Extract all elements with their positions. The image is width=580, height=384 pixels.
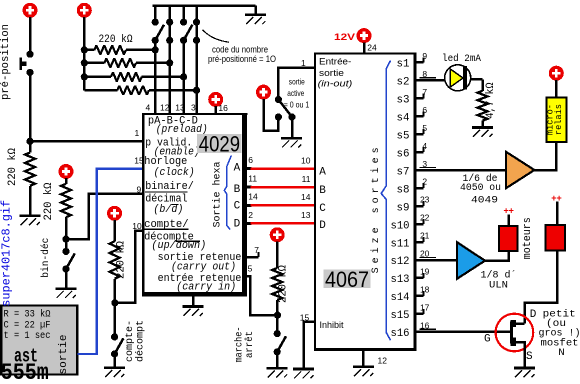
- svg-text:C: C: [319, 203, 326, 215]
- svg-text:1: 1: [135, 128, 140, 138]
- svg-text:2: 2: [422, 177, 427, 187]
- svg-text:2: 2: [248, 210, 253, 220]
- ground LED resistor: [472, 126, 493, 129]
- svg-text:super4017c8.gif: super4017c8.gif: [0, 200, 13, 307]
- wire ULN out to moteur: [485, 251, 509, 261]
- svg-text:16: 16: [218, 103, 228, 113]
- supply rail for resistor bank: [83, 17, 86, 90]
- wire buffer out to relais: [534, 142, 556, 170]
- 4067 pin 12 stub: [362, 350, 365, 366]
- switch marche-arret: [276, 315, 279, 334]
- svg-text:N: N: [558, 347, 565, 359]
- ground top right: [254, 6, 257, 15]
- wire pin9 to bin-dec node: [66, 194, 142, 240]
- svg-text:(b/d): (b/d): [153, 204, 183, 216]
- pointer line to code switches: [203, 30, 230, 43]
- ground under R1: [20, 214, 41, 217]
- 4029 ground pin 8: [192, 296, 195, 306]
- svg-text:s14: s14: [391, 292, 410, 304]
- svg-text:23: 23: [420, 195, 430, 205]
- svg-text:(in-out): (in-out): [318, 79, 353, 89]
- node junction pin1: [26, 138, 33, 145]
- svg-text:pré-positionné = 1O: pré-positionné = 1O: [208, 54, 276, 64]
- svg-text:C: C: [234, 201, 241, 213]
- resistor bank Rd: [84, 89, 117, 92]
- svg-text:21: 21: [420, 231, 430, 241]
- svg-text:(carry in): (carry in): [176, 281, 236, 293]
- resistor 220k marche: [276, 242, 279, 269]
- node rail-Rc: [81, 73, 88, 80]
- svg-text:pré-position: pré-position: [0, 24, 12, 100]
- svg-text:(clock): (clock): [154, 167, 195, 179]
- svg-text:9: 9: [422, 51, 427, 61]
- resistor R1 220k (pre-position pulldown): [29, 141, 32, 152]
- node marche: [274, 312, 281, 319]
- svg-text:4: 4: [146, 102, 151, 112]
- svg-text:17: 17: [420, 303, 430, 313]
- label 4,7 kOhm: [485, 82, 497, 118]
- svg-text:4067: 4067: [325, 267, 369, 292]
- label 220 kOhm R1: [7, 148, 19, 186]
- svg-text:D: D: [319, 220, 326, 232]
- svg-text:marche-: marche-: [233, 327, 245, 363]
- svg-text:décompt: décompt: [134, 320, 146, 362]
- code switch Sa line to 4029 pin 4: [154, 6, 157, 23]
- svg-text:14: 14: [248, 192, 258, 202]
- svg-text:220 kΩ: 220 kΩ: [7, 148, 19, 186]
- label compte-decompt: [124, 320, 136, 362]
- LED D1 led 2mA: [445, 65, 471, 91]
- resistor 220k bin-dec: [65, 178, 68, 184]
- label bin-dec: [40, 238, 52, 278]
- svg-text:D: D: [530, 309, 537, 321]
- code switch Sb line to 4029 pin 12: [168, 6, 171, 23]
- ground bin-dec: [65, 269, 68, 288]
- wire M1 to ++: [507, 215, 510, 227]
- node compte: [111, 299, 118, 306]
- label marche-arret: [233, 327, 245, 363]
- node rail-Ra: [81, 46, 88, 53]
- svg-text:19: 19: [420, 267, 430, 277]
- label super4017c8.gif: [0, 200, 13, 307]
- svg-text:(carry out): (carry out): [171, 261, 236, 273]
- IC U1 4029 body: [142, 113, 247, 297]
- wire M2 to mosfet drain: [525, 250, 558, 323]
- svg-text:led 2mA: led 2mA: [442, 53, 482, 65]
- mosfet gate bar: [510, 322, 513, 344]
- switch sortie active: [275, 96, 282, 103]
- push-button pre-position: [26, 51, 33, 58]
- svg-text:12V: 12V: [334, 32, 356, 43]
- svg-text:D: D: [234, 218, 241, 230]
- svg-text:12: 12: [160, 102, 170, 112]
- svg-text:s4: s4: [397, 112, 410, 124]
- node rail-Rb: [81, 59, 88, 66]
- svg-text:14: 14: [301, 192, 311, 202]
- wire 555 sortie to 4029 horloge (blue): [78, 169, 143, 354]
- svg-text:A: A: [234, 163, 241, 175]
- wire LED to resistor: [471, 78, 483, 81]
- svg-text:3: 3: [422, 159, 427, 169]
- 4067 label Seize sorties: [370, 147, 382, 273]
- svg-text:220 kΩ: 220 kΩ: [99, 34, 133, 46]
- 4029 blue brace outputs: [224, 156, 231, 230]
- svg-text:Entrée-: Entrée-: [319, 56, 351, 66]
- power +V supply symbol P7 (compte-decompte): [107, 206, 122, 221]
- resistor bank Rb: [84, 62, 104, 65]
- svg-text:s8: s8: [397, 184, 410, 196]
- wire 4029 pin10 to compte node: [115, 231, 142, 303]
- wire P5 to selector left contact: [264, 99, 279, 131]
- svg-text:18: 18: [420, 285, 430, 295]
- motor load M1 (red box): [499, 226, 518, 251]
- mosfet channel pads: [510, 320, 515, 327]
- svg-text:active: active: [287, 88, 304, 98]
- power +V supply symbol P5 (sortie active): [256, 85, 271, 100]
- svg-text:arrêt: arrêt: [244, 331, 256, 358]
- buffer U3 1/6 de 4050 (triangle): [506, 152, 534, 188]
- relay K1 micro-relais (yellow box): [547, 97, 567, 141]
- svg-text:6: 6: [422, 105, 427, 115]
- svg-text:Inhibit: Inhibit: [320, 320, 344, 330]
- svg-text:code du nombre: code du nombre: [212, 45, 268, 55]
- mosfet drain lead: [514, 322, 525, 325]
- svg-text:24: 24: [367, 42, 377, 52]
- svg-text:3: 3: [191, 102, 196, 112]
- power +V supply symbol P2 (resistor bank): [77, 3, 92, 18]
- svg-text:sortie: sortie: [289, 77, 305, 87]
- svg-text:s12: s12: [391, 256, 410, 268]
- resistor bank Ra: [84, 49, 94, 52]
- svg-text:sortie: sortie: [58, 335, 70, 375]
- svg-text:20: 20: [420, 249, 430, 259]
- svg-text:A: A: [319, 167, 326, 179]
- svg-text:s7: s7: [397, 166, 410, 178]
- svg-text:s10: s10: [391, 220, 410, 232]
- resistor bank Rc: [84, 76, 111, 79]
- svg-text:++: ++: [503, 206, 514, 217]
- svg-text:11: 11: [248, 174, 257, 184]
- svg-text:555m: 555m: [1, 360, 49, 384]
- ground mosfet source: [514, 367, 535, 370]
- svg-text:sortie: sortie: [319, 68, 344, 78]
- power +V supply symbol P9 (micro-relais): [549, 66, 564, 81]
- svg-text:4: 4: [422, 141, 427, 151]
- wire P1 to push button: [29, 17, 32, 55]
- ground selector right contact: [291, 117, 294, 137]
- svg-text:t = 1 sec: t = 1 sec: [4, 330, 51, 342]
- svg-text:S: S: [526, 351, 533, 363]
- svg-text:7: 7: [422, 87, 427, 97]
- svg-text:220 kΩ: 220 kΩ: [277, 265, 289, 303]
- svg-text:relais: relais: [554, 104, 564, 135]
- svg-text:s5: s5: [397, 130, 410, 142]
- svg-text:= 0 ou 1: = 0 ou 1: [284, 99, 310, 109]
- svg-text:s9: s9: [397, 202, 410, 214]
- label 220k marche: [277, 265, 289, 303]
- top bus wire to ground: [153, 4, 256, 7]
- svg-text:4,7 kΩ: 4,7 kΩ: [485, 82, 497, 118]
- power +V supply symbol P1 (pre-position): [23, 3, 38, 18]
- svg-text:s15: s15: [391, 310, 410, 322]
- svg-text:B: B: [234, 184, 241, 196]
- svg-text:1: 1: [301, 58, 306, 68]
- svg-text:4050 ou: 4050 ou: [460, 182, 501, 194]
- svg-text:13: 13: [175, 102, 185, 112]
- svg-text:s1: s1: [397, 59, 410, 71]
- 4067 blue brace seize sorties: [381, 61, 390, 341]
- svg-text:++: ++: [551, 193, 562, 204]
- svg-text:s6: s6: [397, 148, 410, 160]
- svg-text:22: 22: [420, 213, 430, 223]
- power +V supply symbol P3 (4029 pin16): [208, 92, 223, 107]
- switch bin-dec: [65, 239, 68, 251]
- svg-text:13: 13: [301, 210, 311, 220]
- svg-text:5: 5: [422, 123, 427, 133]
- svg-text:220 kΩ: 220 kΩ: [116, 241, 128, 279]
- svg-text:8: 8: [422, 69, 427, 79]
- 4067 name highlight: [324, 270, 371, 289]
- svg-text:s2: s2: [397, 77, 410, 89]
- ground compte: [113, 354, 116, 367]
- svg-text:ULN: ULN: [489, 280, 508, 292]
- ground 4067 pin15: [293, 368, 314, 371]
- label pre-position: [0, 24, 12, 100]
- 555 label sortie: [58, 335, 70, 375]
- wire bus B 4029 to 4067 (red): [247, 186, 252, 189]
- svg-text:4029: 4029: [199, 132, 240, 157]
- svg-text:5: 5: [248, 264, 253, 274]
- 4029 label Sortie hexa: [212, 162, 224, 228]
- 4029 name highlight: [197, 134, 241, 153]
- svg-text:moteurs: moteurs: [522, 217, 534, 259]
- wire button to node pin1: [29, 71, 32, 142]
- label moteurs: [522, 217, 534, 259]
- svg-text:s16: s16: [391, 328, 410, 340]
- code switch Sc line to 4029 pin 13: [182, 6, 185, 23]
- label 220k bin-dec: [43, 182, 55, 220]
- switch compte-decompt: [113, 303, 116, 337]
- motor load M2 (red box): [545, 225, 565, 250]
- transistor Q1 mosfet N (red circle): [496, 314, 534, 352]
- node bin-dec: [62, 236, 69, 243]
- ground 4067 pin12: [353, 365, 374, 368]
- astable 555 box: [1, 306, 77, 375]
- svg-text:s11: s11: [391, 238, 410, 250]
- wire bus A 4029 to 4067 (red): [247, 167, 252, 170]
- IC U2 4067 body: [314, 52, 416, 351]
- ground marche: [276, 352, 279, 367]
- 4029 pin 5 wire (carry in): [247, 276, 278, 315]
- wire M2 to ++: [556, 202, 559, 225]
- resistor 220k compte: [113, 220, 116, 241]
- svg-text:s13: s13: [391, 274, 410, 286]
- buffer U4 1/8 ULN (blue triangle): [457, 242, 485, 279]
- power +V supply symbol P6 (bin-dec): [59, 164, 74, 179]
- resistor 4.7k: [478, 91, 488, 121]
- 4067 pin 15 wire: [304, 322, 315, 368]
- svg-text:10: 10: [301, 155, 311, 165]
- power +V supply symbol P8 (marche-arret): [270, 227, 285, 242]
- svg-text:10: 10: [132, 221, 142, 231]
- svg-text:220 kΩ: 220 kΩ: [43, 182, 55, 220]
- svg-text:bin-déc: bin-déc: [40, 238, 52, 278]
- svg-text:7: 7: [254, 245, 259, 255]
- svg-text:B: B: [319, 185, 326, 197]
- wire bus C 4029 to 4067 (red): [247, 204, 252, 207]
- 4029 pin 7 stub (carry out): [247, 256, 259, 259]
- wire 4067 pin1 to selector: [278, 68, 316, 100]
- svg-text:15: 15: [300, 313, 310, 323]
- svg-text:12: 12: [378, 356, 388, 366]
- svg-text:11: 11: [302, 174, 311, 184]
- code switch Sd line to 4029 pin 3: [195, 6, 198, 23]
- power 12V supply symbol P4 (4067 pin24): [357, 28, 372, 43]
- svg-text:Sortie hexa: Sortie hexa: [212, 162, 224, 228]
- svg-text:15: 15: [134, 156, 144, 166]
- svg-text:6: 6: [248, 155, 253, 165]
- svg-text:4049: 4049: [471, 195, 498, 207]
- svg-text:s3: s3: [397, 94, 410, 106]
- mosfet source lead: [514, 342, 525, 367]
- svg-text:G: G: [484, 333, 491, 345]
- svg-text:16: 16: [420, 321, 430, 331]
- wire bus D 4029 to 4067 (red): [247, 222, 252, 225]
- wire node to 4029 pin 1: [30, 140, 142, 143]
- label 220k compte: [116, 241, 128, 279]
